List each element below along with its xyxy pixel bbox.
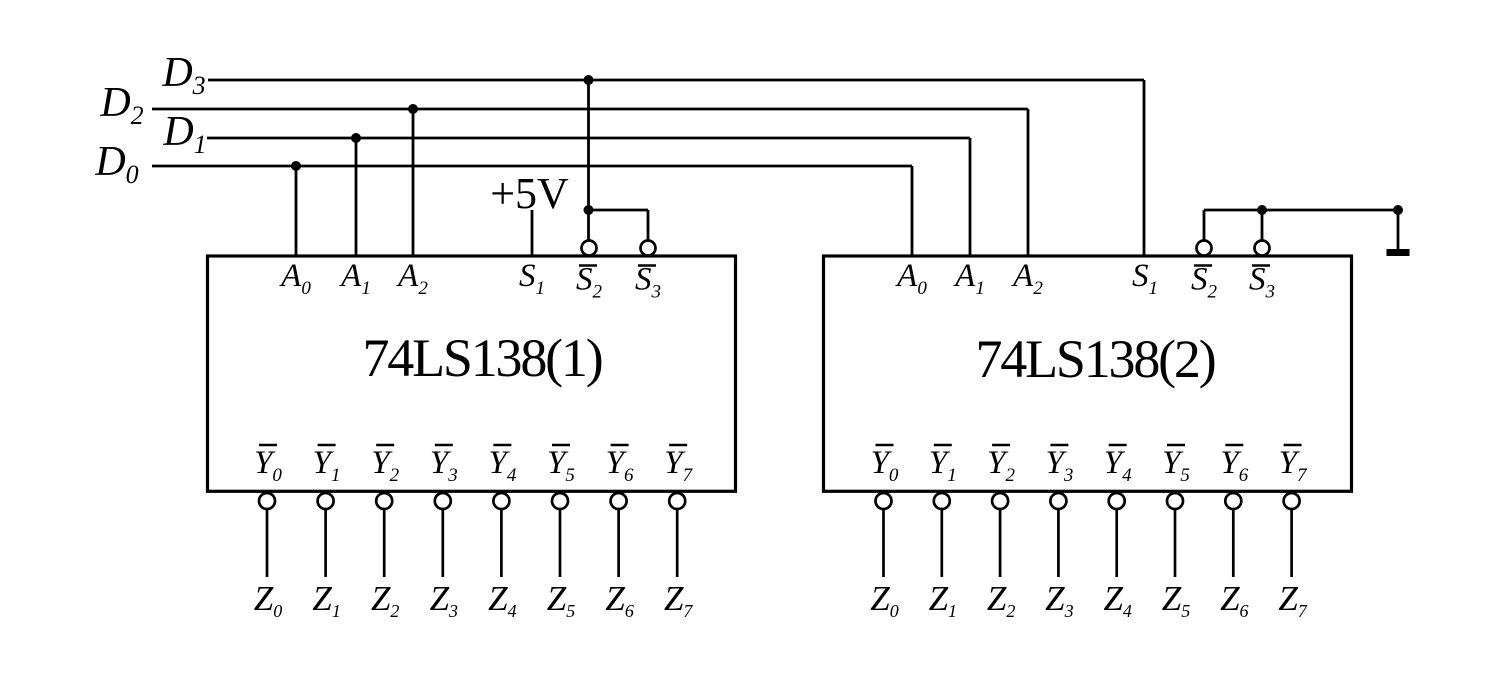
svg-text:Y5: Y5 (547, 445, 575, 486)
svg-text:S2: S2 (576, 262, 603, 303)
svg-text:S2: S2 (1191, 262, 1218, 303)
svg-text:Y2: Y2 (987, 445, 1015, 486)
svg-text:Y6: Y6 (1220, 445, 1248, 486)
svg-text:Z2: Z2 (987, 579, 1015, 621)
svg-text:Y1: Y1 (929, 445, 957, 486)
svg-text:Y5: Y5 (1162, 445, 1190, 486)
svg-text:Y4: Y4 (488, 445, 516, 486)
svg-text:Z7: Z7 (664, 579, 693, 621)
svg-text:Z5: Z5 (547, 579, 575, 621)
svg-text:Z4: Z4 (488, 579, 516, 621)
svg-text:A0: A0 (279, 258, 311, 299)
svg-text:+5V: +5V (490, 169, 569, 218)
svg-text:Z3: Z3 (1045, 579, 1073, 621)
svg-text:Z1: Z1 (929, 579, 957, 621)
svg-text:Y7: Y7 (664, 445, 693, 486)
svg-text:Y0: Y0 (254, 445, 282, 486)
svg-text:Z0: Z0 (254, 579, 282, 621)
svg-text:Z0: Z0 (870, 579, 898, 621)
svg-text:Z5: Z5 (1162, 579, 1190, 621)
svg-text:Z7: Z7 (1278, 579, 1307, 621)
svg-text:Z1: Z1 (312, 579, 340, 621)
svg-text:74LS138(2): 74LS138(2) (976, 329, 1215, 389)
svg-text:D1: D1 (162, 109, 206, 159)
svg-text:D3: D3 (161, 50, 205, 100)
svg-text:Y3: Y3 (1045, 445, 1073, 486)
svg-text:Y2: Y2 (371, 445, 399, 486)
svg-text:Y4: Y4 (1104, 445, 1132, 486)
svg-text:A2: A2 (396, 258, 428, 299)
svg-text:A1: A1 (953, 258, 985, 299)
svg-text:Z6: Z6 (605, 579, 633, 621)
svg-text:Y1: Y1 (313, 445, 341, 486)
svg-text:Y0: Y0 (871, 445, 899, 486)
svg-text:A1: A1 (339, 258, 371, 299)
svg-text:A0: A0 (895, 258, 927, 299)
svg-text:Z3: Z3 (430, 579, 458, 621)
svg-text:74LS138(1): 74LS138(1) (363, 328, 602, 388)
svg-text:S3: S3 (1249, 262, 1275, 303)
svg-text:Y3: Y3 (430, 445, 458, 486)
svg-text:A2: A2 (1011, 258, 1043, 299)
svg-text:Y6: Y6 (606, 445, 634, 486)
svg-text:D0: D0 (94, 139, 138, 189)
svg-text:Y7: Y7 (1279, 445, 1308, 486)
svg-text:D2: D2 (99, 80, 143, 130)
svg-text:S3: S3 (635, 262, 661, 303)
svg-text:S1: S1 (519, 258, 545, 299)
svg-text:Z6: Z6 (1220, 579, 1248, 621)
svg-text:S1: S1 (1132, 258, 1158, 299)
svg-text:Z2: Z2 (371, 579, 399, 621)
svg-text:Z4: Z4 (1103, 579, 1131, 621)
